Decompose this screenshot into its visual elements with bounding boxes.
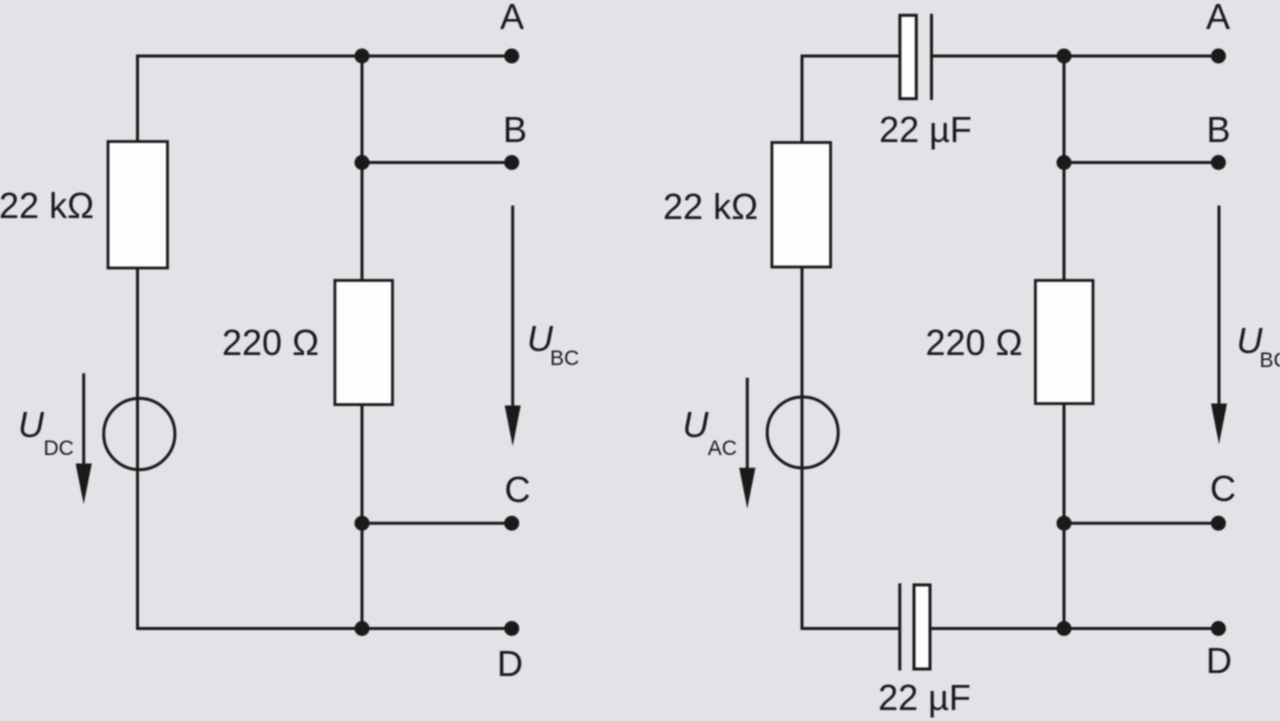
capacitor C2 22 uF (right circuit, bottom): box plate: [914, 585, 930, 669]
svg-text:C: C: [505, 469, 531, 510]
label U_DC: [18, 404, 74, 460]
junction node: left middle branch row B: [355, 155, 370, 170]
wire: right circuit left branch, top rail to R3: [801, 55, 804, 143]
wire: right circuit middle branch, top rail to R4: [1063, 56, 1066, 280]
resistor R4 220 Ohm (right circuit): [1035, 280, 1093, 403]
svg-text:A: A: [1206, 0, 1230, 37]
resistor R2 220 Ohm (left circuit): [335, 280, 393, 404]
resistor R1 22 kOhm (left circuit): [108, 142, 168, 269]
junction node: right top rail / middle branch: [1057, 49, 1072, 64]
arrow: U_DC voltage direction: [76, 373, 92, 504]
capacitor C1 22 uF (right circuit, top): line plate: [930, 14, 933, 100]
wire: right circuit middle branch, R4 to bottom rail: [1063, 405, 1066, 629]
svg-text:AC: AC: [708, 437, 737, 460]
junction node: right middle branch row C: [1057, 516, 1072, 531]
wire: right circuit row C stub: [1064, 522, 1218, 525]
wire: left circuit row B stub: [362, 161, 512, 164]
wire: left circuit left branch, R1 through source U_DC to bottom rail: [136, 267, 139, 630]
svg-text:D: D: [497, 643, 523, 684]
svg-text:C: C: [1210, 468, 1236, 509]
wire: right circuit left branch, R3 through source U_AC to bottom rail: [801, 267, 804, 630]
capacitor C2 22 uF (right circuit, bottom): line plate: [898, 583, 901, 670]
terminal B (left circuit): [504, 155, 519, 170]
wire: left circuit middle branch, R2 to bottom rail: [361, 405, 364, 629]
label U_BC (left circuit): [527, 318, 579, 370]
terminal B (right circuit): [1211, 155, 1226, 170]
capacitor C1 22 uF (right circuit, top): box plate: [900, 15, 916, 98]
terminal A (left circuit): [504, 49, 519, 64]
wire: right circuit top rail, C1 to terminal A: [932, 55, 1219, 58]
wire: left circuit left branch, top rail to R1: [136, 55, 139, 143]
arrow: U_BC voltage direction (right circuit): [1211, 206, 1227, 445]
terminal C (right circuit): [1211, 516, 1226, 531]
wire: right circuit row B stub: [1064, 161, 1218, 164]
junction node: left bottom rail / middle branch: [355, 621, 370, 636]
svg-text:A: A: [500, 0, 524, 37]
svg-text:BC: BC: [550, 347, 579, 370]
terminal D (right circuit): [1211, 621, 1226, 636]
svg-text:22 µF: 22 µF: [879, 109, 972, 150]
junction node: left top rail / middle branch: [355, 49, 370, 64]
svg-text:U: U: [683, 404, 710, 445]
svg-text:U: U: [18, 404, 45, 445]
wire: right circuit bottom rail, left branch to capacitor C2: [801, 627, 901, 630]
terminal D (left circuit): [504, 621, 519, 636]
svg-text:B: B: [503, 109, 527, 150]
label U_AC: [683, 404, 737, 460]
wire: right circuit bottom rail, C2 to terminal D: [932, 627, 1219, 630]
svg-text:22 kΩ: 22 kΩ: [663, 186, 758, 227]
wire: left circuit bottom rail (row D): [136, 627, 512, 630]
wire: left circuit top rail (row A): [138, 55, 512, 58]
svg-text:D: D: [1206, 640, 1232, 681]
arrow: U_AC voltage direction: [739, 378, 755, 509]
svg-text:22 µF: 22 µF: [878, 677, 971, 718]
resistor R3 22 kOhm (right circuit): [772, 143, 831, 268]
svg-text:DC: DC: [44, 437, 74, 460]
terminal C (left circuit): [504, 516, 519, 531]
terminal A (right circuit): [1211, 49, 1226, 64]
svg-text:220 Ω: 220 Ω: [926, 322, 1023, 363]
voltage source U_AC (right circuit): [767, 397, 838, 468]
junction node: left middle branch row C: [355, 516, 370, 531]
label U_BC (right circuit, clipped at right edge): [1237, 320, 1280, 372]
svg-text:22 kΩ: 22 kΩ: [0, 185, 94, 226]
junction node: right middle branch row B: [1057, 155, 1072, 170]
wire: left circuit row C stub: [362, 522, 512, 525]
arrow: U_BC voltage direction (left circuit): [505, 206, 521, 447]
svg-text:BC: BC: [1260, 349, 1280, 372]
svg-text:B: B: [1206, 109, 1230, 150]
voltage source U_DC (left circuit): [104, 398, 175, 469]
wire: right circuit top rail, left branch to capacitor C1: [802, 55, 899, 58]
svg-text:220 Ω: 220 Ω: [222, 322, 319, 363]
junction node: right bottom rail / middle branch: [1057, 621, 1072, 636]
wire: left circuit middle branch, top rail to R2: [361, 56, 364, 280]
